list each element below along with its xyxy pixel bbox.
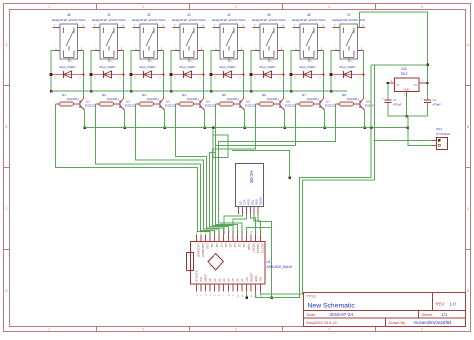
svg-text:D3: D3 — [238, 244, 242, 248]
node coil rail junction — [290, 90, 293, 93]
svg-text:2N2222: 2N2222 — [125, 104, 136, 108]
svg-text:J6: J6 — [67, 13, 71, 17]
svg-text:J4: J4 — [227, 13, 231, 17]
transistor Q8 2N2222 — [360, 97, 376, 110]
svg-text:470uF: 470uF — [433, 103, 442, 107]
svg-text:RelayHT3F-12VDC-SHG: RelayHT3F-12VDC-SHG — [132, 18, 166, 22]
transistor Q6 2N2222 — [280, 97, 296, 110]
svg-text:D13/SCK: D13/SCK — [195, 270, 199, 282]
svg-text:Date:: Date: — [307, 312, 317, 317]
svg-text:D7: D7 — [219, 244, 223, 248]
svg-text:1K(1001): 1K(1001) — [306, 97, 318, 101]
svg-text:U1: U1 — [267, 260, 271, 264]
svg-text:J7: J7 — [347, 13, 351, 17]
wire HC-05 TXD — [250, 214, 255, 235]
relay J7 — [332, 13, 366, 63]
svg-text:2N2222: 2N2222 — [245, 104, 256, 108]
svg-text:2N2222: 2N2222 — [205, 104, 216, 108]
svg-text:D4: D4 — [233, 244, 237, 248]
diode D6 1N4007 — [250, 65, 285, 80]
svg-text:STATE: STATE — [258, 197, 262, 205]
svg-text:470uF: 470uF — [393, 103, 402, 107]
wire — [242, 51, 245, 98]
wire — [171, 51, 175, 92]
wire GND top — [247, 227, 272, 234]
resistor R1 1K — [56, 93, 81, 106]
diode D7 1N4007 — [290, 65, 325, 80]
svg-text:REV:: REV: — [436, 302, 446, 307]
svg-text:1.0: 1.0 — [450, 302, 457, 307]
resistor R5 1K — [216, 93, 241, 106]
svg-text:VCC: VCC — [242, 200, 246, 206]
wire — [131, 51, 135, 92]
wire — [51, 51, 55, 92]
wire HC-05 VCC — [224, 214, 242, 235]
transistor Q4 2N2222 — [200, 97, 216, 110]
wire VO rail — [371, 64, 427, 66]
svg-text:1: 1 — [48, 5, 50, 9]
U1 diamond logo — [208, 254, 223, 270]
U1 labels — [267, 260, 293, 269]
svg-text:RelayHT3F-12VDC-SHG: RelayHT3F-12VDC-SHG — [52, 18, 86, 22]
svg-text:J3: J3 — [187, 13, 191, 17]
wire HC-05 supply — [213, 128, 228, 158]
node coil rail junction — [170, 90, 173, 93]
wire +12V coil rail — [51, 90, 347, 92]
svg-text:Drawn By:: Drawn By: — [389, 321, 407, 325]
wire HC-05 STATE — [258, 214, 273, 299]
svg-text:D0/RX1: D0/RX1 — [256, 244, 260, 255]
wire — [282, 51, 285, 98]
diode D3 1N4007 — [130, 65, 165, 80]
transistor Q2 2N2222 — [120, 97, 136, 110]
wire — [331, 51, 335, 92]
svg-text:2: 2 — [142, 328, 144, 332]
resistor R4 1K — [176, 93, 201, 106]
svg-text:VIN: VIN — [258, 277, 262, 282]
svg-text:D8: D8 — [215, 244, 219, 248]
wire HC-05 RXD — [254, 214, 260, 235]
svg-text:C1: C1 — [393, 98, 397, 102]
svg-text:1K(1001): 1K(1001) — [266, 97, 278, 101]
svg-text:2N2222: 2N2222 — [285, 104, 296, 108]
svg-text:1K(1001): 1K(1001) — [106, 97, 118, 101]
capacitor C2 470uF — [421, 82, 441, 116]
wire CN1 GND — [408, 116, 432, 146]
svg-text:1/1: 1/1 — [442, 312, 448, 317]
svg-text:HC-05: HC-05 — [249, 171, 254, 184]
node coil rail junction — [130, 90, 133, 93]
svg-text:U10: U10 — [401, 67, 407, 71]
transistor Q3 2N2222 — [160, 97, 176, 110]
svg-text:VI: VI — [397, 83, 400, 87]
svg-text:2N2222: 2N2222 — [165, 104, 176, 108]
svg-text:GND: GND — [404, 88, 410, 92]
bluetooth module HC-05 — [235, 164, 263, 215]
svg-text:C2: C2 — [433, 98, 437, 102]
wire +5V drop — [245, 292, 248, 299]
wire signal ch2 — [96, 104, 215, 235]
relay J8 — [292, 13, 326, 63]
diode D5 1N4007 — [210, 65, 245, 80]
svg-text:diod_in4007: diod_in4007 — [179, 65, 196, 69]
svg-text:D1/TX1: D1/TX1 — [260, 244, 264, 254]
title block — [304, 293, 466, 327]
resistor R3 1K — [136, 93, 161, 106]
diode D8 1N4007 — [330, 65, 365, 80]
wire VIN P2 — [260, 65, 432, 294]
svg-text:A7: A7 — [240, 278, 244, 282]
resistor R6 1K — [256, 93, 281, 106]
svg-text:D5: D5 — [228, 244, 232, 248]
wire signal ch6 — [212, 104, 255, 235]
svg-text:5: 5 — [421, 328, 423, 332]
node coil rail junction — [250, 90, 253, 93]
svg-text:2N2222: 2N2222 — [365, 104, 376, 108]
svg-text:diod_in4007: diod_in4007 — [99, 65, 116, 69]
wire emitter — [83, 110, 86, 129]
relay J5 — [252, 13, 286, 63]
svg-text:RelayHT3F-12VDC-SHG: RelayHT3F-12VDC-SHG — [252, 18, 286, 22]
wire emitter — [203, 110, 206, 129]
svg-text:diod_in4007: diod_in4007 — [219, 65, 236, 69]
wire signal ch8 — [218, 104, 335, 235]
capacitor C1 470uF — [382, 82, 402, 116]
svg-text:1K(1001): 1K(1001) — [146, 97, 158, 101]
svg-text:ARDUINO_NANO: ARDUINO_NANO — [267, 265, 293, 269]
svg-text:D11/MOSI: D11/MOSI — [201, 244, 205, 257]
relay J3 — [172, 13, 206, 63]
svg-text:RelayHT3F-12VDC-SHG: RelayHT3F-12VDC-SHG — [172, 18, 206, 22]
svg-text:D9: D9 — [210, 244, 214, 248]
svg-text:diod_in4007: diod_in4007 — [259, 65, 276, 69]
wire — [162, 51, 165, 98]
wire — [91, 51, 95, 92]
svg-text:AREF: AREF — [204, 274, 208, 282]
wire signal ch7 — [215, 104, 295, 235]
svg-text:B: B — [467, 125, 469, 129]
svg-text:Sheet:: Sheet: — [422, 312, 434, 317]
svg-text:1K(1001): 1K(1001) — [226, 97, 238, 101]
wire CN1 pin1 stub — [428, 140, 432, 142]
resistor R8 1K — [336, 93, 361, 106]
wire emitter — [283, 110, 286, 129]
svg-text:7812: 7812 — [400, 72, 407, 76]
svg-text:3V3: 3V3 — [199, 276, 203, 282]
U1 usb connector — [187, 253, 194, 271]
wire emitter — [163, 110, 166, 129]
svg-text:J1: J1 — [107, 13, 111, 17]
svg-text:muzamilmirza16f84: muzamilmirza16f84 — [414, 320, 453, 325]
svg-text:diod_in4007: diod_in4007 — [339, 65, 356, 69]
diode D1 1N4007 — [50, 65, 85, 80]
svg-text:2N2222: 2N2222 — [325, 104, 336, 108]
svg-text:RESET: RESET — [251, 244, 255, 254]
wire — [362, 51, 365, 98]
wire GND bus — [85, 126, 410, 129]
svg-text:A0: A0 — [208, 278, 212, 282]
microcontroller U1 ARDUINO_NANO — [191, 230, 266, 297]
svg-text:GND: GND — [254, 276, 258, 282]
transistor Q1 2N2222 — [80, 97, 96, 110]
svg-text:RelayHT3F-12VDC-SHG: RelayHT3F-12VDC-SHG — [92, 18, 126, 22]
svg-text:J2: J2 — [147, 13, 151, 17]
svg-text:GND: GND — [247, 244, 251, 250]
svg-text:D6: D6 — [224, 244, 228, 248]
svg-text:2N2222: 2N2222 — [85, 104, 96, 108]
svg-text:RelayHT3F-12VDC-SHG: RelayHT3F-12VDC-SHG — [212, 18, 246, 22]
node coil rail junction — [90, 90, 93, 93]
diode D4 1N4007 — [170, 65, 205, 80]
resistor R7 1K — [296, 93, 321, 106]
svg-text:4: 4 — [328, 328, 330, 332]
wire emitter — [323, 110, 326, 129]
svg-text:EasyEDA V5.8.15: EasyEDA V5.8.15 — [307, 321, 337, 325]
svg-text:+5V: +5V — [245, 277, 249, 282]
regulator U10 7812 — [388, 67, 428, 97]
svg-text:A4: A4 — [226, 278, 230, 282]
relay J4 — [212, 13, 246, 63]
relay J6 — [52, 13, 86, 63]
wire GND rail — [388, 115, 428, 117]
svg-text:CN1: CN1 — [436, 127, 442, 131]
wire — [122, 51, 125, 98]
svg-text:diod_in4007: diod_in4007 — [139, 65, 156, 69]
svg-text:5: 5 — [421, 5, 423, 9]
svg-text:J8: J8 — [307, 13, 311, 17]
svg-text:A5: A5 — [231, 278, 235, 282]
svg-text:D2: D2 — [242, 244, 246, 248]
wire regulator GND — [405, 97, 408, 118]
relay J2 — [132, 13, 166, 63]
svg-text:EN: EN — [239, 201, 243, 205]
svg-text:diod_in4007: diod_in4007 — [299, 65, 316, 69]
transistor Q5 2N2222 — [240, 97, 256, 110]
svg-text:diod_in4007: diod_in4007 — [59, 65, 76, 69]
svg-text:RelayHT3F-12VDC-SHG: RelayHT3F-12VDC-SHG — [292, 18, 326, 22]
svg-text:J5: J5 — [267, 13, 271, 17]
wire branch — [232, 151, 290, 178]
svg-text:1K(1001): 1K(1001) — [66, 97, 78, 101]
svg-text:RelayHT3F-12VDC-B4G: RelayHT3F-12VDC-B4G — [332, 18, 366, 22]
svg-text:TITLE:: TITLE: — [307, 295, 317, 299]
svg-text:3: 3 — [235, 328, 237, 332]
svg-text:1K(1001): 1K(1001) — [346, 97, 358, 101]
svg-text:GND: GND — [246, 199, 250, 205]
svg-text:A2: A2 — [217, 278, 221, 282]
svg-text:2: 2 — [142, 5, 144, 9]
svg-text:RXD: RXD — [254, 200, 258, 206]
connector CN1 SY374102 — [432, 127, 450, 150]
svg-text:1K(1001): 1K(1001) — [186, 97, 198, 101]
node coil rail junction — [50, 90, 53, 93]
wire — [202, 51, 205, 98]
diode D2 1N4007 — [90, 65, 125, 80]
svg-text:A1: A1 — [213, 278, 217, 282]
svg-text:B: B — [5, 125, 7, 129]
wire signal ch3 — [136, 104, 220, 235]
svg-text:New Schematic: New Schematic — [308, 303, 356, 310]
wire — [211, 51, 215, 92]
wire — [251, 51, 255, 92]
wire emitter — [243, 110, 246, 129]
wire HC-05 GND — [233, 214, 246, 235]
wire signal ch4 — [176, 104, 224, 235]
svg-text:A3: A3 — [222, 278, 226, 282]
svg-text:A6: A6 — [236, 278, 240, 282]
wire — [291, 51, 295, 92]
node coil rail junction — [210, 90, 213, 93]
svg-text:D10: D10 — [206, 244, 210, 250]
resistor R2 1K — [96, 93, 121, 106]
wire — [322, 51, 325, 98]
svg-text:1: 1 — [48, 328, 50, 332]
transistor Q7 2N2222 — [320, 97, 336, 110]
relay J1 — [92, 13, 126, 63]
svg-text:RESET: RESET — [249, 272, 253, 282]
svg-text:4: 4 — [328, 5, 330, 9]
wire signal ch1 — [56, 104, 211, 235]
svg-text:SY374102: SY374102 — [436, 132, 450, 136]
wire emitter — [123, 110, 126, 129]
wire GND return P1 — [256, 65, 371, 298]
wire relay8 supply loop — [360, 12, 429, 83]
wire signal ch5 — [209, 104, 228, 235]
svg-text:D12/MISO: D12/MISO — [197, 244, 201, 258]
wire — [82, 51, 85, 98]
svg-text:2018-07-24: 2018-07-24 — [330, 312, 354, 317]
wire emitter — [363, 110, 366, 129]
svg-text:TXD: TXD — [250, 200, 254, 205]
node coil rail junction — [330, 90, 333, 93]
svg-text:3: 3 — [235, 5, 237, 9]
